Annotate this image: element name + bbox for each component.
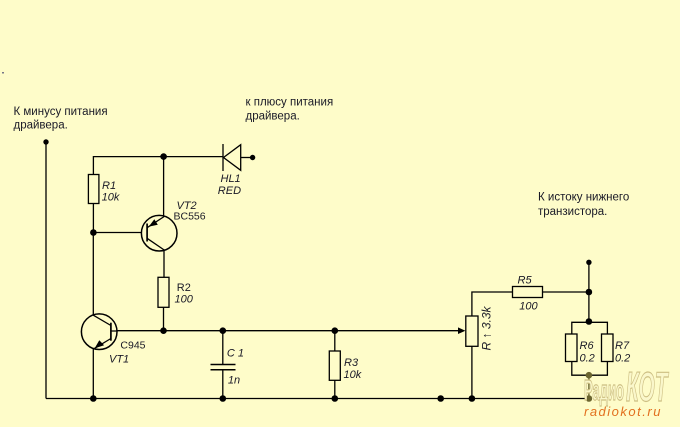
junction: C1 bottom on bottom rail: [220, 395, 227, 402]
label R7 value: [615, 340, 630, 365]
wire: C1 top lead: [222, 331, 224, 365]
svg-text:К минусу питания: К минусу питания: [14, 106, 108, 118]
label R5 value: [518, 274, 539, 312]
svg-text:драйвера.: драйвера.: [14, 120, 68, 132]
svg-text:1n: 1n: [228, 375, 240, 387]
watermark: Радио КОТ: [584, 363, 669, 410]
annotation: к плюсу питания драйвера: [246, 97, 334, 123]
svg-text:C945: C945: [120, 340, 145, 352]
wire: left rail from minus terminal down: [45, 142, 47, 399]
wire: vertical to source terminal: [588, 262, 590, 321]
terminal dot: plus supply after LED: [250, 155, 255, 160]
svg-text:10k: 10k: [102, 191, 120, 203]
wire: VT2 collector lead: [163, 251, 165, 278]
label VT2 BC556: [174, 200, 206, 223]
wire: VT1 emitter lead: [92, 349, 94, 399]
wire: R6R7 junction down to bottom rail (under watermark): [588, 375, 590, 398]
resistor R2: [158, 277, 169, 307]
label HL1 RED: [218, 173, 241, 197]
label C1 value: [227, 348, 244, 387]
wire: R5 right lead: [543, 291, 589, 293]
junction: R3 top on mid rail: [332, 327, 339, 334]
label R2 value: [175, 282, 194, 305]
annotation: К минусу питания драйвера: [14, 106, 108, 132]
terminal dot: minus supply: [43, 139, 48, 144]
capacitor C1 plates: [211, 365, 236, 370]
wire: R3 bottom lead: [334, 380, 336, 398]
wire: R6 R7 top bracket: [572, 322, 608, 334]
resistor R1: [88, 175, 99, 204]
svg-text:HL1: HL1: [221, 173, 241, 185]
svg-text:к плюсу питания: к плюсу питания: [246, 97, 334, 109]
svg-text:0.2: 0.2: [580, 353, 595, 365]
svg-text:10k: 10k: [344, 369, 362, 381]
junction: R3 bottom on bottom rail: [332, 395, 339, 402]
svg-text:VT1: VT1: [109, 354, 129, 366]
potentiometer R 3.3k body: [466, 316, 478, 346]
wire: C1 bottom lead: [222, 370, 224, 399]
svg-text:К истоку нижнего: К истоку нижнего: [538, 192, 629, 204]
svg-text:Радио: Радио: [584, 374, 624, 406]
wire: potentiometer top lead to R5: [472, 292, 513, 316]
svg-text:R3: R3: [344, 357, 359, 369]
annotation: К истоку нижнего транзистора: [538, 192, 629, 219]
junction: R6R7 bottom (under watermark): [586, 372, 593, 379]
svg-text:R1: R1: [102, 180, 116, 192]
wire: VT2 base wire: [93, 232, 141, 234]
svg-text:R7: R7: [615, 340, 630, 352]
junction: C1 top on mid rail: [220, 327, 227, 334]
LED diode HL1: [223, 144, 251, 171]
svg-text:R2: R2: [177, 282, 191, 294]
junction: R2 bottom on mid rail: [160, 327, 167, 334]
transistor VT2 BC556 PNP: [141, 215, 177, 251]
transistor VT1 C945 NPN: [81, 314, 117, 350]
junction: bottom rail right end (under watermark): [586, 395, 593, 402]
junction: bottom rail extra node: [437, 395, 444, 402]
wire: R6 R7 bottom bracket: [572, 362, 608, 376]
svg-text:R5: R5: [518, 274, 533, 286]
resistor R5: [513, 287, 543, 298]
svg-text:RED: RED: [218, 185, 241, 197]
junction: top rail / VT2 emitter: [160, 153, 167, 160]
junction: VT1 emitter on bottom rail: [90, 395, 97, 402]
svg-text:BC556: BC556: [174, 211, 206, 223]
resistor R3: [329, 351, 340, 380]
svg-text:драйвера.: драйвера.: [246, 110, 300, 122]
resistor R7: [602, 334, 614, 362]
wire: R3 top lead: [334, 331, 336, 351]
svg-text:R ↑ 3.3k: R ↑ 3.3k: [480, 305, 494, 350]
svg-text:транзистора.: транзистора.: [538, 206, 607, 218]
svg-text:radiokot.ru: radiokot.ru: [584, 404, 662, 419]
junction: potentiometer bottom on bottom rail: [469, 395, 476, 402]
wire: VT2 emitter lead: [163, 157, 165, 216]
wire: R2 bottom lead: [163, 307, 165, 330]
wire: R1 bottom lead: [92, 204, 94, 233]
svg-text:КОТ: КОТ: [626, 363, 669, 410]
junction: R6R7 top: [586, 318, 593, 325]
svg-text:100: 100: [519, 301, 538, 313]
potentiometer wiper arrow: [458, 327, 465, 334]
junction: R5 right node: [586, 289, 593, 296]
junction: R1 bottom / VT2 base / VT1 collector: [90, 229, 97, 236]
terminal dot: to source of low-side transistor: [586, 260, 591, 265]
svg-text:R6: R6: [580, 340, 595, 352]
label VT1 C945: [109, 340, 146, 366]
svg-text:100: 100: [175, 293, 194, 305]
label R1 value: [102, 180, 120, 204]
label R6 value: [580, 340, 595, 365]
resistor R6: [566, 334, 578, 362]
wire: potentiometer bottom lead: [471, 346, 473, 398]
svg-text:C 1: C 1: [227, 348, 244, 360]
wire: R1 top lead and top rail to diode: [93, 157, 223, 175]
wire: VT1 collector lead: [92, 233, 94, 316]
wire: mid rail from VT1 base to potentiometer: [111, 330, 459, 332]
wire: bottom rail: [46, 398, 589, 400]
label R3 value: [344, 357, 362, 381]
